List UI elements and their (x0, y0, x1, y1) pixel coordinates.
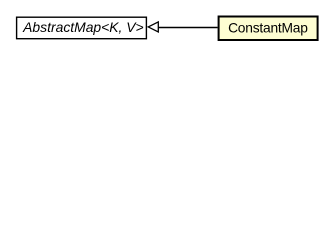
generalization arrowhead (hollow triangle) (148, 22, 158, 32)
background (0, 0, 331, 59)
wire: generalization connector (158, 27, 217, 29)
class box ConstantMap (selected, yellow) (219, 17, 318, 41)
svg-text:AbstractMap<K, V>: AbstractMap<K, V> (22, 19, 143, 35)
svg-text:ConstantMap: ConstantMap (228, 20, 308, 35)
class box AbstractMap<K, V> (17, 17, 147, 39)
